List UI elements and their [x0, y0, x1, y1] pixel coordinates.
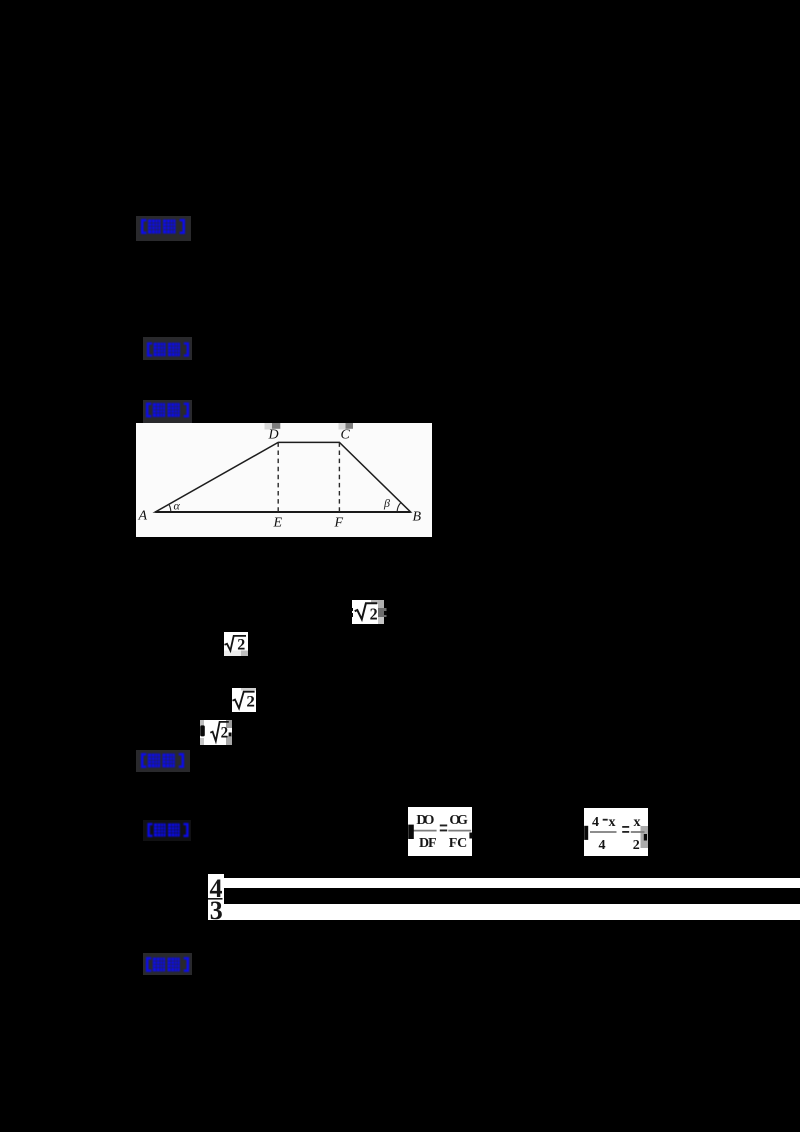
clipped glyph at left edge	[200, 725, 205, 736]
svg-text:2: 2	[220, 724, 228, 741]
svg-text:2: 2	[633, 838, 640, 853]
label block 4	[136, 750, 190, 772]
svg-text:OG: OG	[449, 814, 468, 829]
formula patch A: DO/DF = OG/FC	[408, 807, 472, 856]
label block 5	[143, 820, 191, 841]
label block 6	[143, 953, 192, 975]
label block 3	[143, 400, 192, 423]
angle arc at A	[168, 504, 170, 512]
fraction 4/3	[208, 874, 224, 920]
sqrt2 patch 3	[232, 688, 256, 712]
svg-text:C: C	[340, 428, 350, 443]
gray ears above D and C	[264, 423, 272, 430]
sqrt2 patch 4	[200, 720, 232, 745]
label block 1	[136, 216, 191, 241]
dot after	[228, 733, 231, 737]
svg-text:F: F	[333, 516, 343, 531]
svg-text:x: x	[609, 815, 616, 830]
vertex labels	[137, 428, 421, 531]
trapezoid outline	[155, 442, 410, 512]
svg-text:DF: DF	[419, 837, 437, 852]
svg-text:B: B	[412, 510, 421, 525]
sqrt2 patch 1	[352, 600, 384, 624]
dashed CF	[338, 442, 340, 512]
svg-text:D: D	[267, 428, 278, 443]
svg-text:α: α	[173, 499, 180, 513]
svg-text:FC: FC	[449, 837, 468, 852]
dashed DE	[277, 442, 279, 512]
svg-text:β: β	[383, 496, 390, 510]
svg-text:2: 2	[237, 637, 245, 654]
svg-text:2: 2	[246, 693, 255, 710]
svg-text:4: 4	[599, 838, 606, 853]
svg-text:4: 4	[592, 815, 599, 830]
colon mark left of sqrt patch 1	[350, 608, 353, 612]
white bar row 2	[224, 904, 800, 920]
angle arc at B	[397, 503, 401, 512]
clipped glyph at left edge	[408, 825, 414, 839]
svg-text:E: E	[272, 516, 282, 531]
formula patch B: (4-x)/4 = x/2	[584, 808, 648, 857]
comma at right	[469, 833, 472, 839]
svg-text:DO: DO	[416, 814, 434, 829]
white bar row 1	[224, 878, 800, 888]
figure trapezoid ABCD	[136, 423, 432, 537]
sqrt2 patch 2	[224, 632, 248, 656]
svg-text:A: A	[137, 509, 147, 524]
svg-text:2: 2	[370, 605, 378, 624]
dot right of sqrt patch 1	[384, 611, 387, 615]
svg-text:x: x	[634, 815, 641, 830]
label block 2	[143, 337, 192, 360]
